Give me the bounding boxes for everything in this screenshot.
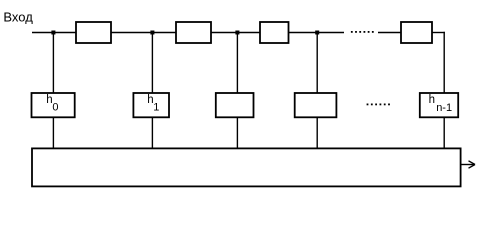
node N2 junction dot <box>150 31 154 35</box>
coefficient block h n-1 <box>420 93 458 117</box>
wire tap vertical to h2 <box>236 33 238 94</box>
coefficient block h2 (unlabeled) <box>216 93 254 117</box>
coefficient block h0 <box>32 93 75 117</box>
coefficient block h1 <box>133 93 169 117</box>
svg-text:Вход: Вход <box>3 9 33 24</box>
svg-text:1: 1 <box>153 101 159 113</box>
wire tap vertical to h1 <box>151 33 153 94</box>
wire h3 to adder <box>316 118 318 149</box>
output arrow <box>461 161 476 168</box>
wire h n-1 to adder <box>443 118 445 149</box>
svg-text:h: h <box>429 94 435 106</box>
adder (summation block) <box>32 148 461 186</box>
svg-text:0: 0 <box>52 101 58 113</box>
ellipsis dots on delay line <box>351 31 374 33</box>
wire from Z1 to Z2 <box>112 32 176 34</box>
wire tap vertical to h0 <box>52 33 54 94</box>
delay block Z3 <box>260 22 289 43</box>
wire h0 to adder <box>52 118 54 149</box>
node N1 junction dot <box>51 31 55 35</box>
wire h1 to adder <box>151 118 153 149</box>
wire from Z2 to Z3 <box>212 32 261 34</box>
wire from Z3 toward ellipsis <box>289 32 344 34</box>
coefficient block h3 (unlabeled) <box>295 93 337 117</box>
wire from ellipsis to delay block Zn <box>378 32 401 34</box>
wire tap vertical to h n-1 <box>443 32 445 93</box>
node N4 junction dot <box>315 31 319 35</box>
wire tap vertical to h3 <box>316 33 318 94</box>
delay block Z2 <box>176 22 211 43</box>
wire input segment to delay block Z1 <box>32 32 76 34</box>
ellipsis dots in coefficient row <box>367 104 390 106</box>
wire from Zn to right corner <box>433 32 445 34</box>
svg-text:n-1: n-1 <box>436 102 452 114</box>
delay block Z1 <box>76 22 111 43</box>
node N3 junction dot <box>235 31 239 35</box>
wire h2 to adder <box>236 118 238 149</box>
delay block Zn <box>401 22 432 43</box>
